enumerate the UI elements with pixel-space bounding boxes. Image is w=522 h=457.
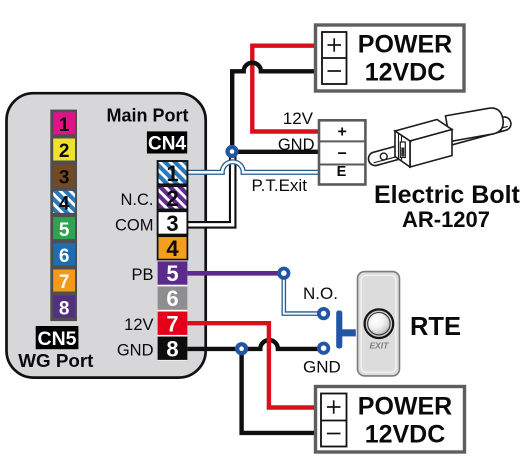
svg-text:6: 6 [166,286,178,311]
svg-text:Electric Bolt: Electric Bolt [374,181,521,209]
wire red top power + to bolt + (12V) [252,46,322,132]
label 12V (bolt) [283,109,314,128]
wire black node J2 to bottom power - [242,349,322,433]
label AR-1207 [402,207,490,232]
pin label 12V [124,316,153,334]
bolt housing box top face [395,120,452,142]
pin label GND [117,342,154,360]
pin label PB [131,266,153,284]
svg-text:WG Port: WG Port [18,350,94,371]
RTE push button contact bar [336,311,356,349]
svg-text:3: 3 [166,211,178,236]
node J1 junction [225,145,238,158]
electric bolt terminal block [319,120,365,184]
pin CN4-6 (gray) [158,286,188,311]
svg-text:4: 4 [59,194,70,215]
svg-text:1: 1 [166,161,178,186]
connector CN4 pin column background [158,160,188,361]
pin label N.C. [121,191,154,209]
label GND (RTE) [303,358,341,377]
svg-text:GND: GND [303,358,341,377]
svg-text:1: 1 [59,115,70,136]
power supply PS2 (bottom) box [316,387,465,453]
label P.T.Exit [252,176,308,195]
electric bolt drawing [367,106,512,167]
svg-text:7: 7 [166,311,178,336]
svg-text:5: 5 [166,261,178,286]
WG wire 3 [53,165,75,187]
label N.O. [303,284,338,303]
svg-text:GND: GND [117,342,154,360]
svg-text:N.O.: N.O. [303,284,338,303]
pin CN4-3 (white) COM [158,211,188,236]
label RTE [410,313,461,341]
connector label CN5 [36,326,79,350]
svg-text:6: 6 [59,246,70,267]
wire white COM pin3 to node J1 (outlined white wire) [187,152,232,225]
svg-text:POWER: POWER [358,31,452,59]
svg-text:8: 8 [59,298,70,319]
svg-text:8: 8 [166,336,178,361]
controller panel body [7,93,206,377]
pin CN4-2 (purple hatch) N.C. [158,186,188,211]
node J2 junction [235,342,248,355]
pin label COM [115,217,154,235]
wire black node J1 to bolt - (GND) [232,150,319,154]
WG port wire squares 1-8 [50,110,77,322]
wire black GND pin8 to ring C with hump over red [187,340,323,349]
svg-text:POWER: POWER [358,393,452,421]
svg-text:E: E [337,164,347,180]
svg-text:12VDC: 12VDC [365,421,446,449]
svg-text:N.C.: N.C. [121,191,154,209]
bolt slot and pin [400,142,405,158]
svg-text:Main Port: Main Port [106,105,188,125]
pin CN4-8 (black) GND [158,336,188,361]
bolt housing box left face [395,131,410,167]
svg-text:CN5: CN5 [37,328,76,350]
wire blue P.T.Exit pin1 to bolt terminal E with hump over white wire [187,162,319,172]
svg-text:COM: COM [115,217,154,235]
RTE exit button body [358,272,400,376]
svg-text:2: 2 [59,141,70,162]
svg-text:12VDC: 12VDC [365,59,446,87]
WG wire 1 [53,112,75,134]
node ring A (purple wire end) [279,269,288,278]
svg-text:RTE: RTE [410,313,461,341]
label Main Port [106,105,188,125]
svg-text:GND: GND [278,136,315,154]
WG wire 6 [53,243,75,265]
pin CN4-5 (purple) PB [158,261,188,286]
bolt housing box front face [410,130,452,168]
svg-text:2: 2 [166,186,178,211]
power supply PS1 (top) box [316,25,465,91]
wire black top power - to node J1, hump over red [232,63,322,152]
pin CN4-4 (orange) [158,236,188,261]
wire purple PB pin5 to ring A [187,271,283,276]
label WG Port [18,350,94,371]
svg-text:P.T.Exit: P.T.Exit [252,176,308,195]
node ring C GND terminal [319,344,328,353]
bolt cylinder body [445,106,505,141]
WG wire 4 [53,191,75,213]
bolt base plate [367,115,512,167]
label Electric Bolt [374,181,521,209]
bolt housing bevel lines [397,132,412,160]
svg-text:AR-1207: AR-1207 [402,207,490,232]
WG wire 5 [53,217,75,239]
WG strip background [50,110,77,322]
svg-text:3: 3 [59,167,70,188]
WG wire 8 [53,296,75,318]
svg-text:−: − [338,146,347,163]
connector label CN4 [147,131,187,154]
svg-text:EXIT: EXIT [369,341,389,351]
wire red 12V pin7 to bottom power + [187,323,321,407]
svg-text:4: 4 [166,236,179,261]
pin CN4-1 (blue hatch) [158,161,188,186]
pin CN4-7 (red) 12V [158,311,188,336]
label GND (bolt) [278,136,315,154]
svg-text:7: 7 [59,272,70,293]
WG wire 2 [53,139,75,161]
svg-text:PB: PB [131,266,153,284]
svg-text:12V: 12V [283,109,314,128]
svg-text:CN4: CN4 [148,134,186,155]
svg-text:5: 5 [59,220,70,241]
wire blue ring A to ring B (N.O.) [284,273,324,313]
node ring B N.O. terminal [319,309,328,318]
svg-text:+: + [338,124,347,141]
WG wire 7 [53,270,75,292]
svg-text:12V: 12V [124,316,153,334]
